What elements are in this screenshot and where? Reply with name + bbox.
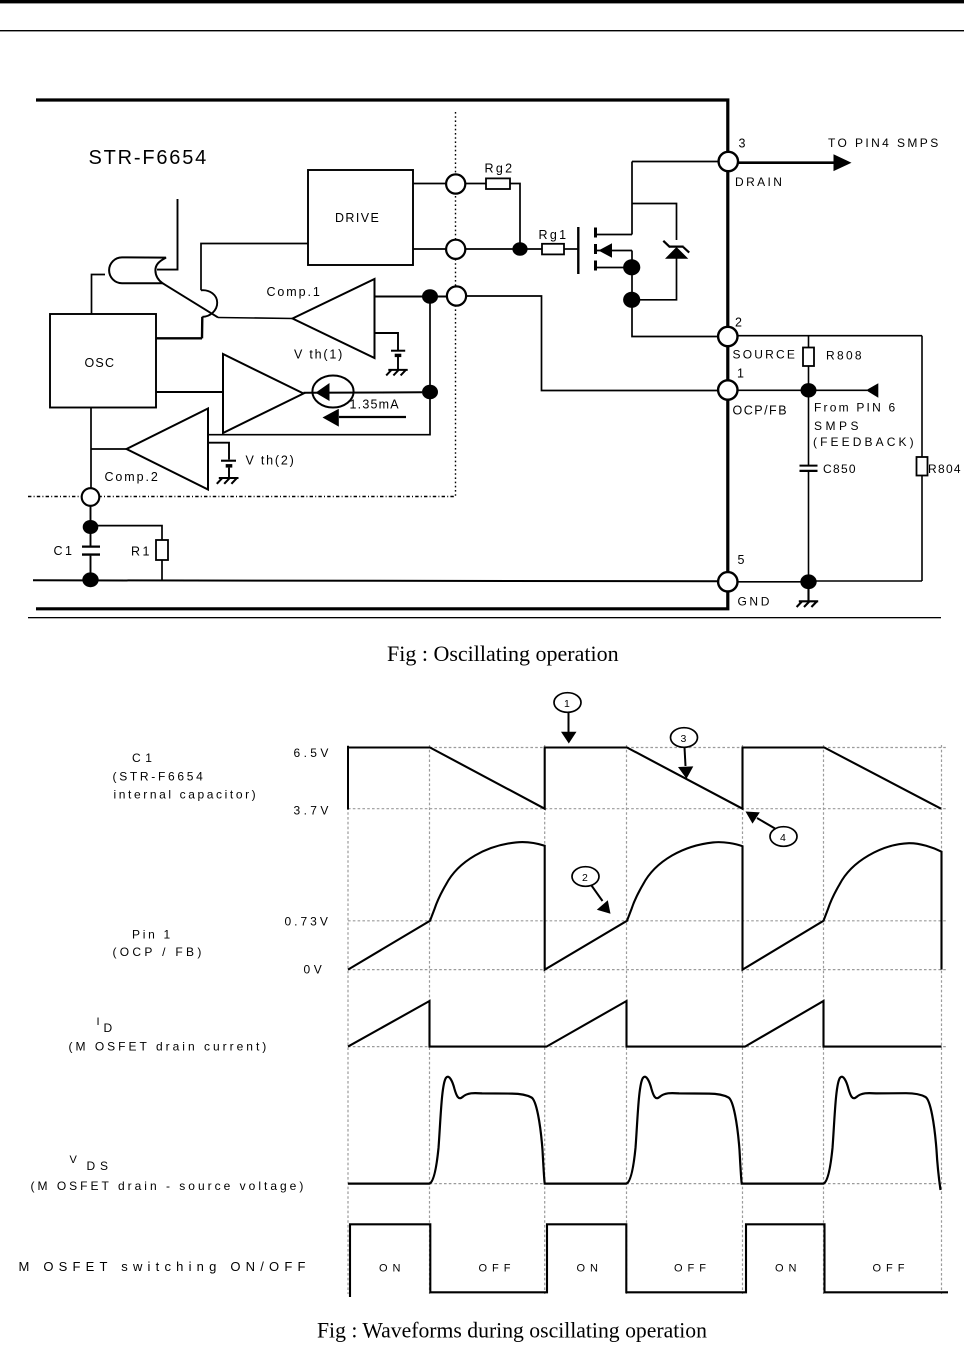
- page top thick rule: [0, 0, 964, 3]
- svg-text:D: D: [104, 1021, 113, 1035]
- wire OSC to crossover: [156, 317, 202, 339]
- pin 1 circle: [718, 380, 737, 399]
- current direction arrow: [339, 416, 406, 418]
- capacitor C850: [808, 397, 810, 466]
- wire drain top: [632, 162, 719, 235]
- svg-text:ON: ON: [775, 1263, 802, 1275]
- wire comp1 plus input to OCP node: [375, 296, 448, 298]
- schematic bottom thin rule: [28, 617, 941, 618]
- latch capsule shape: [109, 257, 166, 283]
- svg-text:1: 1: [564, 698, 570, 710]
- svg-text:V: V: [70, 1154, 78, 1166]
- node junction ground: [800, 574, 816, 589]
- node junction OCP/FB: [801, 383, 817, 397]
- waveform axis solid segment: [347, 746, 349, 810]
- waveform C1 sawtooth: [348, 748, 941, 809]
- svg-text:Pin 1: Pin 1: [132, 928, 173, 942]
- pin circle internal node: [447, 286, 466, 305]
- latch diagonal output line: [163, 283, 219, 317]
- svg-text:Fig : Waveforms during oscilla: Fig : Waveforms during oscillating opera…: [317, 1319, 707, 1343]
- battery Vth(2): [221, 460, 236, 462]
- svg-text:internal capacitor): internal capacitor): [114, 788, 259, 802]
- internal boundary dotted vertical: [455, 112, 457, 497]
- wire stub into capsule notch: [157, 199, 178, 270]
- svg-text:R808: R808: [826, 349, 864, 363]
- svg-text:OFF: OFF: [479, 1263, 516, 1275]
- resistor Rg2: [413, 183, 447, 185]
- wire node down to comp2 input: [209, 392, 431, 435]
- current source 1.35mA: [312, 376, 353, 408]
- node junction C1 top: [83, 520, 99, 534]
- svg-text:TO PIN4 SMPS: TO PIN4 SMPS: [828, 136, 941, 150]
- waveform gridlines vertical: [348, 745, 942, 1294]
- wire source to pin2: [632, 251, 718, 337]
- ground for Vth(2): [217, 478, 239, 484]
- transistor MOSFET source terminal: [597, 267, 632, 269]
- op-amp Comp.1: [293, 279, 375, 358]
- wire pin2 rail to R804: [738, 335, 923, 337]
- svg-text:Comp.1: Comp.1: [267, 285, 322, 299]
- internal boundary dotted horizontal: [28, 496, 456, 498]
- svg-text:2: 2: [735, 316, 742, 330]
- svg-text:M OSFET switching ON/OFF: M OSFET switching ON/OFF: [19, 1259, 311, 1274]
- svg-text:3: 3: [739, 137, 746, 151]
- resistor R1: [91, 526, 163, 540]
- svg-text:C1: C1: [54, 544, 75, 558]
- transistor MOSFET channel segments: [594, 228, 597, 271]
- waveform MOSFET ON/OFF pulses: [350, 1224, 948, 1297]
- resistor R808: [808, 336, 810, 348]
- svg-text:V th(2): V th(2): [246, 454, 296, 468]
- svg-text:I: I: [97, 1016, 100, 1028]
- capacitor C1: [90, 527, 92, 546]
- wire OSC to comparator input: [156, 391, 223, 393]
- ground symbol main: [797, 582, 819, 607]
- pin 3 circle: [719, 152, 738, 171]
- wire OSC top to capsule input: [92, 275, 106, 315]
- svg-text:From PIN 6: From PIN 6: [814, 401, 897, 415]
- pin 5 circle: [718, 572, 737, 591]
- svg-text:1: 1: [737, 367, 744, 381]
- svg-text:0V: 0V: [304, 963, 326, 977]
- wire pin1 node: [738, 389, 809, 391]
- svg-text:Fig : Oscillating operation: Fig : Oscillating operation: [387, 641, 619, 666]
- wire pin5 to ground node: [738, 581, 809, 583]
- svg-text:6.5V: 6.5V: [294, 746, 332, 760]
- wire DRIVE input from latch: [201, 244, 308, 291]
- svg-text:C1: C1: [132, 751, 157, 765]
- IC package border (STR-F6654 block outline): [36, 100, 728, 609]
- waveform ID drain current: [348, 1001, 942, 1047]
- battery Vth(1): [391, 350, 405, 352]
- resistor R804: [921, 336, 923, 457]
- block DRIVE: [308, 170, 413, 265]
- wire comp1 output to latch node: [218, 318, 293, 319]
- waveform Pin1 OCP/FB: [348, 842, 942, 969]
- arrow TO PIN4 SMPS: [738, 161, 836, 164]
- node junction current source output: [422, 385, 438, 399]
- transistor MOSFET drain terminal: [597, 234, 632, 236]
- node junction zener anode: [623, 292, 640, 308]
- callout 2: [572, 867, 599, 887]
- wire Rg2 to gate node: [510, 184, 520, 244]
- svg-text:R1: R1: [131, 545, 152, 559]
- svg-text:DRAIN: DRAIN: [735, 175, 784, 189]
- arrow From PIN 6: [815, 389, 867, 391]
- svg-text:(M OSFET drain - source voltag: (M OSFET drain - source voltage): [31, 1179, 307, 1193]
- wire ground rail: [33, 580, 719, 581]
- resistor Rg1: [413, 248, 447, 250]
- wire node to current source node: [429, 297, 431, 393]
- wire to C1: [90, 506, 92, 521]
- pin 2 circle: [718, 327, 737, 346]
- svg-text:SMPS: SMPS: [814, 419, 862, 433]
- svg-text:GND: GND: [738, 595, 772, 609]
- svg-text:STR-F6654: STR-F6654: [89, 147, 209, 169]
- svg-text:ON: ON: [577, 1263, 604, 1275]
- op-amp Comp.2: [127, 409, 209, 490]
- svg-text:2: 2: [582, 872, 588, 884]
- wire crossover hump: [201, 290, 217, 317]
- waveform VDS drain-source voltage: [348, 1077, 941, 1190]
- svg-text:(OCP / FB): (OCP / FB): [113, 945, 205, 959]
- svg-text:(STR-F6654: (STR-F6654: [113, 770, 206, 784]
- svg-text:OFF: OFF: [873, 1263, 910, 1275]
- svg-text:V th(1): V th(1): [294, 348, 344, 362]
- wire comp2 output: [91, 408, 127, 489]
- svg-text:SOURCE: SOURCE: [733, 348, 798, 362]
- wire OCP node to pin1: [466, 296, 718, 391]
- svg-text:ON: ON: [379, 1263, 406, 1275]
- svg-text:OCP/FB: OCP/FB: [733, 404, 789, 418]
- svg-text:4: 4: [780, 832, 786, 844]
- zener diode: [665, 247, 688, 259]
- transistor MOSFET gate bar: [577, 227, 579, 274]
- svg-text:DRIVE: DRIVE: [335, 211, 380, 225]
- svg-text:Rg1: Rg1: [539, 228, 569, 242]
- svg-text:(M OSFET drain current): (M OSFET drain current): [69, 1040, 270, 1054]
- ground for Vth(1): [386, 370, 408, 376]
- pin circle C1 node on boundary: [82, 488, 100, 506]
- svg-text:DS: DS: [87, 1159, 113, 1173]
- svg-text:3: 3: [681, 733, 687, 745]
- svg-text:Rg2: Rg2: [485, 162, 515, 176]
- comparator triangle OCP: [223, 354, 304, 433]
- svg-text:5: 5: [738, 553, 745, 567]
- transistor MOSFET body arrow: [597, 250, 632, 252]
- svg-text:OFF: OFF: [674, 1263, 711, 1275]
- svg-text:OSC: OSC: [85, 356, 116, 370]
- wire zener branch: [632, 204, 677, 300]
- block OSC: [50, 314, 156, 408]
- svg-text:1.35mA: 1.35mA: [350, 398, 400, 412]
- wire C850 R804 bottom: [809, 580, 923, 582]
- svg-text:C850: C850: [823, 462, 857, 476]
- callout 4: [770, 827, 797, 847]
- svg-text:(FEEDBACK): (FEEDBACK): [813, 435, 917, 449]
- waveform gridlines horizontal: [348, 748, 948, 1184]
- svg-text:3.7V: 3.7V: [294, 804, 332, 818]
- svg-text:Comp.2: Comp.2: [105, 470, 160, 484]
- wire comp2 ref input: [208, 443, 229, 460]
- callout 3: [671, 728, 698, 748]
- svg-text:0.73V: 0.73V: [285, 915, 331, 929]
- wire comp1 minus input: [375, 333, 399, 350]
- node junction comp1 output to OCP: [422, 289, 438, 303]
- node junction source: [623, 259, 640, 275]
- page header thin rule: [0, 30, 964, 31]
- callout 1: [554, 693, 581, 713]
- svg-text:R804: R804: [928, 462, 962, 476]
- node junction C1 bottom: [82, 572, 98, 587]
